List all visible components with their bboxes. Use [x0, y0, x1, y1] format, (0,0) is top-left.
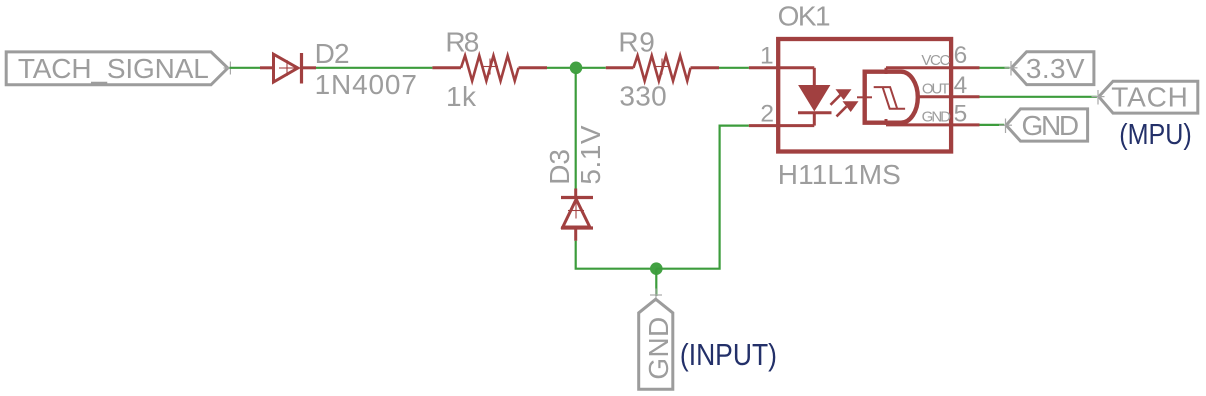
wire node B to OK1 pin 2	[656, 126, 749, 269]
wire pin 6 to 3.3V flag	[980, 67, 1010, 69]
photon arrow 1	[837, 90, 851, 99]
svg-text:4: 4	[954, 72, 968, 99]
LED cathode bar	[798, 111, 832, 114]
supply flag GND (INPUT)	[639, 299, 674, 389]
pin 4 stub	[952, 95, 980, 98]
svg-text:D2: D2	[315, 38, 349, 69]
svg-text:D3: D3	[544, 149, 575, 185]
svg-text:VCC: VCC	[921, 52, 950, 69]
LED anode lead	[813, 68, 816, 86]
wire pin 5 to GND flag	[980, 124, 1005, 126]
net flag 3.3V	[1012, 52, 1094, 85]
LED triangle	[799, 86, 830, 111]
schmitt trigger body	[865, 72, 918, 123]
svg-text:5.1V: 5.1V	[575, 125, 606, 185]
pin 5 stub	[952, 123, 980, 126]
GND tick	[885, 119, 888, 125]
junction node A	[570, 62, 583, 75]
wire D3 to bottom node	[576, 241, 657, 269]
OUT internal line pin 4	[918, 95, 952, 98]
svg-text:OUT: OUT	[922, 81, 950, 98]
net flag GND (MPU side)	[1006, 109, 1088, 141]
wire node A down to D3	[575, 72, 577, 189]
node cross at GND tip	[999, 119, 1012, 134]
net flag TACH	[1099, 81, 1198, 113]
diode D2	[260, 53, 316, 84]
svg-text:GND: GND	[1022, 110, 1078, 141]
LED cathode lead	[813, 113, 816, 126]
svg-text:1N4007: 1N4007	[315, 69, 418, 100]
svg-text:R9: R9	[618, 26, 655, 57]
photon arrow 2	[844, 102, 858, 111]
svg-text:H11L1MS: H11L1MS	[778, 159, 901, 190]
hysteresis symbol	[874, 87, 905, 109]
pin 6 stub	[952, 66, 980, 69]
wire TACH_SIGNAL to D2	[230, 67, 261, 69]
zener diode D3	[561, 189, 593, 241]
wire D2 to R8	[316, 67, 432, 69]
net flag TACH_SIGNAL	[6, 52, 228, 85]
wire R9 to OK1 pin 1	[719, 67, 749, 69]
pin 1 lead	[749, 66, 814, 69]
svg-text:(INPUT): (INPUT)	[680, 338, 777, 372]
svg-text:3.3V: 3.3V	[1026, 53, 1085, 84]
node cross at 3.3V tip	[1005, 61, 1018, 76]
resistor R9	[606, 56, 719, 81]
svg-text:5: 5	[954, 100, 968, 127]
node cross at TACH_SIGNAL tip	[224, 62, 236, 75]
optocoupler OK1	[749, 39, 980, 152]
svg-text:330: 330	[619, 81, 667, 112]
svg-text:(MPU): (MPU)	[1119, 117, 1191, 150]
svg-text:6: 6	[954, 42, 968, 69]
GND internal line pin 5	[886, 123, 952, 126]
schmitt input stub	[857, 96, 872, 98]
wire R8 to R9 through node	[547, 67, 606, 69]
junction node B	[650, 262, 663, 275]
svg-text:1: 1	[760, 43, 774, 70]
OK1 box	[778, 39, 951, 152]
svg-text:TACH_SIGNAL: TACH_SIGNAL	[18, 53, 209, 84]
svg-text:1k: 1k	[446, 81, 477, 112]
node cross at TACH tip	[1092, 90, 1105, 105]
svg-text:R8: R8	[445, 26, 478, 57]
wire node B down to GND flag	[655, 269, 657, 296]
svg-text:GND: GND	[643, 316, 674, 379]
VCC internal line pin 6	[886, 66, 952, 69]
VCC tick	[885, 68, 888, 74]
resistor R8	[432, 56, 547, 81]
node cross at GND tip	[650, 289, 662, 302]
pin 2 lead	[749, 124, 814, 127]
wire pin 4 to TACH flag	[980, 96, 1097, 98]
svg-text:2: 2	[760, 100, 774, 127]
svg-text:TACH: TACH	[1111, 82, 1188, 113]
svg-text:GND: GND	[922, 108, 952, 125]
svg-text:OK1: OK1	[778, 0, 830, 31]
